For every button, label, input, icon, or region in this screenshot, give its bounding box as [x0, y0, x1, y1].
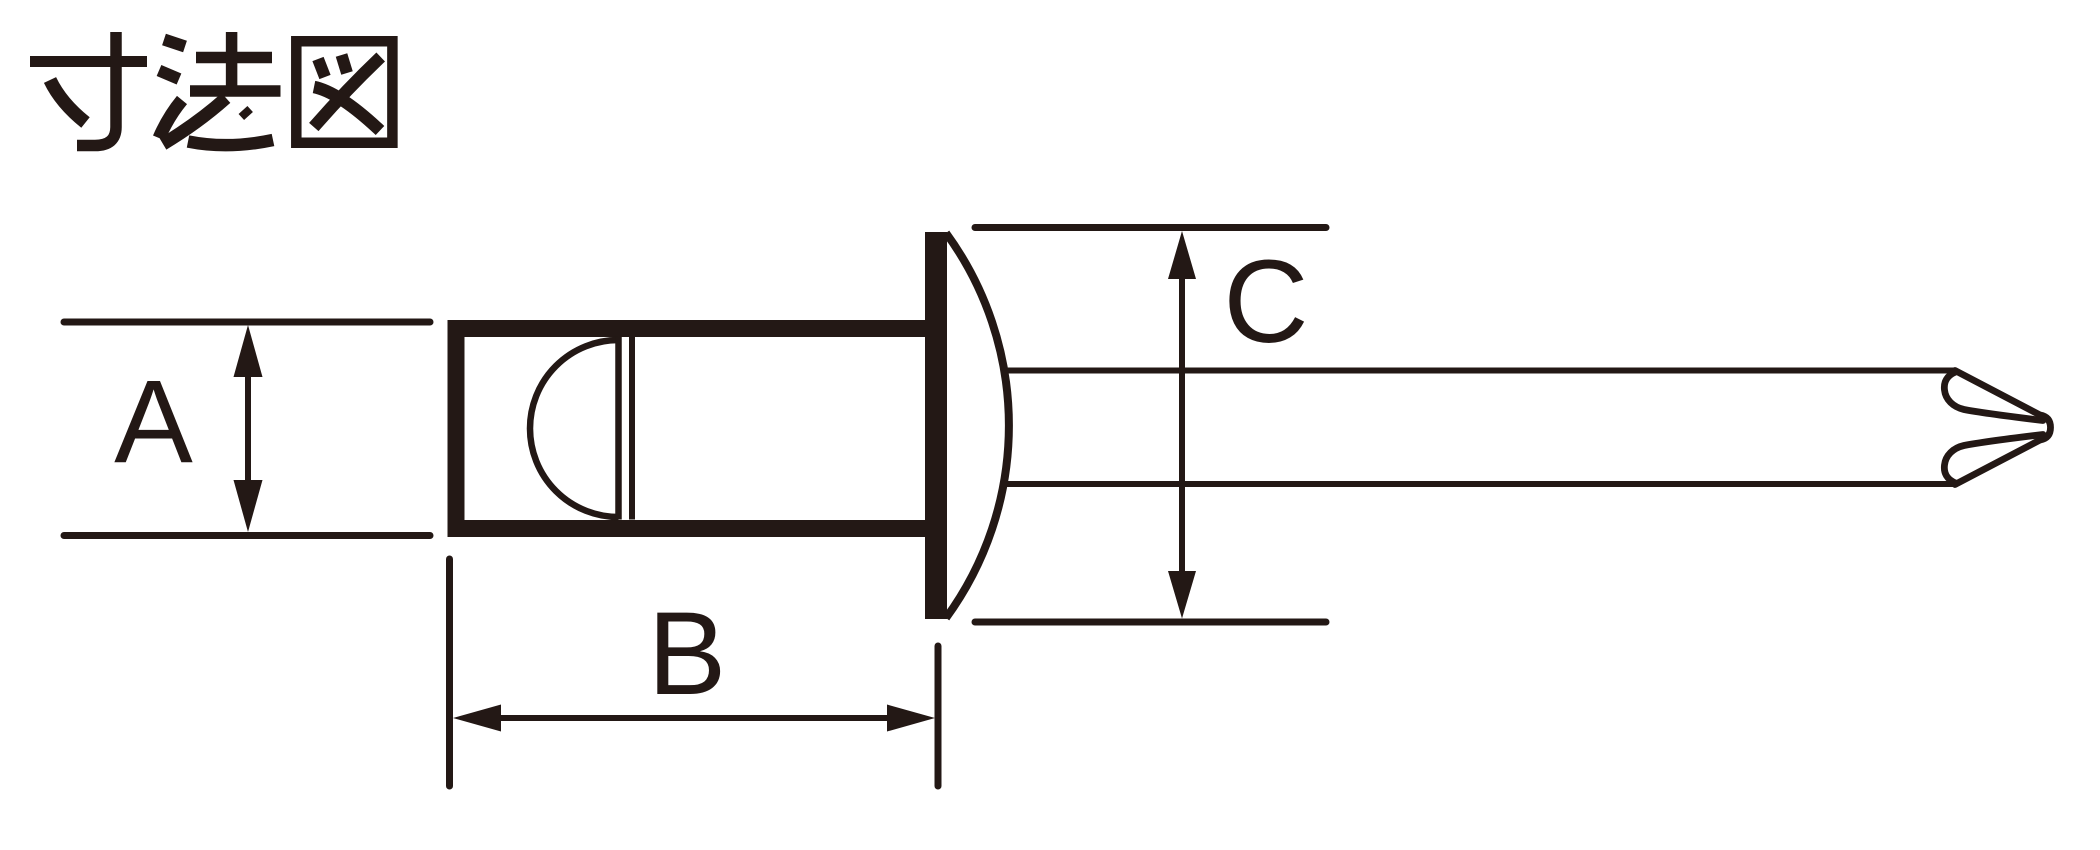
title kanji SUN (寸): [30, 32, 147, 146]
dimension A top extension line: [64, 319, 430, 326]
svg-text:C: C: [1223, 236, 1308, 368]
title kanji HOU (法): [159, 32, 281, 145]
title kanji ZU (図): [296, 41, 392, 142]
dimension C arrow: [1168, 231, 1196, 619]
svg-text:B: B: [648, 588, 727, 720]
mandrel head flat edge line: [615, 337, 622, 520]
dimension C bottom extension line: [975, 619, 1326, 626]
mandrel tip: [1944, 371, 2050, 485]
mandrel stem top line: [1002, 368, 1954, 374]
rivet body (hollow shell): [456, 329, 936, 529]
dimension A arrow: [234, 325, 263, 532]
mandrel head inside body (semicircle): [530, 340, 619, 517]
flange dome arc: [946, 233, 1009, 618]
dimension A bottom extension line: [64, 532, 430, 539]
dimension B left extension line: [446, 559, 453, 786]
second vertical line in body: [629, 337, 635, 520]
flange face bar: [925, 232, 947, 619]
dimension B arrow: [453, 705, 935, 732]
svg-text:A: A: [114, 356, 193, 488]
dimension C top extension line: [975, 224, 1326, 231]
dimension B right extension line: [935, 646, 942, 786]
mandrel stem bottom line: [1002, 481, 1954, 487]
